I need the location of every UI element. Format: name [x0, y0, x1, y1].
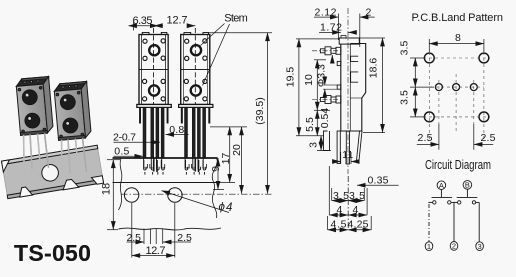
svg-text:18: 18 [101, 183, 113, 195]
svg-text:3.5: 3.5 [333, 190, 349, 202]
svg-text:4.5: 4.5 [331, 219, 347, 231]
svg-text:12.7: 12.7 [146, 245, 166, 257]
svg-text:3.5: 3.5 [399, 90, 411, 105]
svg-text:19.5: 19.5 [285, 67, 297, 88]
svg-text:(39.5): (39.5) [254, 97, 266, 124]
svg-text:0.8: 0.8 [169, 124, 184, 136]
svg-text:3.5: 3.5 [399, 41, 411, 56]
svg-text:P.C.B.Land Pattern: P.C.B.Land Pattern [412, 12, 504, 24]
svg-text:2.5: 2.5 [418, 132, 433, 144]
svg-text:Stem: Stem [224, 13, 248, 25]
svg-text:4: 4 [353, 204, 359, 216]
svg-text:1: 1 [427, 242, 431, 251]
svg-text:3: 3 [478, 242, 482, 251]
svg-text:3.5: 3.5 [349, 190, 365, 202]
svg-text:0.35: 0.35 [368, 175, 389, 187]
svg-text:10: 10 [303, 74, 315, 86]
svg-text:1.72: 1.72 [320, 22, 342, 34]
svg-text:12.7: 12.7 [167, 14, 188, 26]
svg-text:3: 3 [308, 142, 320, 148]
svg-text:2: 2 [366, 6, 372, 18]
svg-text:0.54: 0.54 [319, 108, 331, 129]
svg-text:2.5: 2.5 [177, 232, 192, 244]
svg-text:2.5: 2.5 [481, 132, 496, 144]
svg-text:Φ3.3: Φ3.3 [316, 64, 328, 87]
svg-text:TS-050: TS-050 [14, 240, 91, 266]
svg-text:8: 8 [455, 32, 461, 44]
svg-text:A: A [439, 181, 444, 190]
svg-text:1: 1 [348, 150, 354, 161]
svg-text:18.6: 18.6 [368, 58, 380, 79]
svg-text:ϕ: ϕ [219, 201, 226, 213]
svg-text:5.5: 5.5 [304, 117, 316, 132]
svg-text:B: B [465, 181, 470, 190]
svg-text:20: 20 [231, 144, 243, 156]
svg-text:2.12: 2.12 [315, 6, 337, 18]
svg-text:0.5: 0.5 [114, 146, 129, 158]
svg-text:2: 2 [452, 242, 456, 251]
svg-text:6.35: 6.35 [133, 15, 153, 27]
svg-text:Circuit Diagram: Circuit Diagram [425, 157, 491, 172]
svg-text:2-0.7: 2-0.7 [113, 131, 136, 143]
svg-text:2.5: 2.5 [127, 232, 142, 244]
svg-text:9: 9 [210, 166, 222, 172]
svg-text:4: 4 [337, 204, 343, 216]
svg-text:4: 4 [226, 202, 232, 214]
svg-text:4.25: 4.25 [348, 219, 369, 231]
